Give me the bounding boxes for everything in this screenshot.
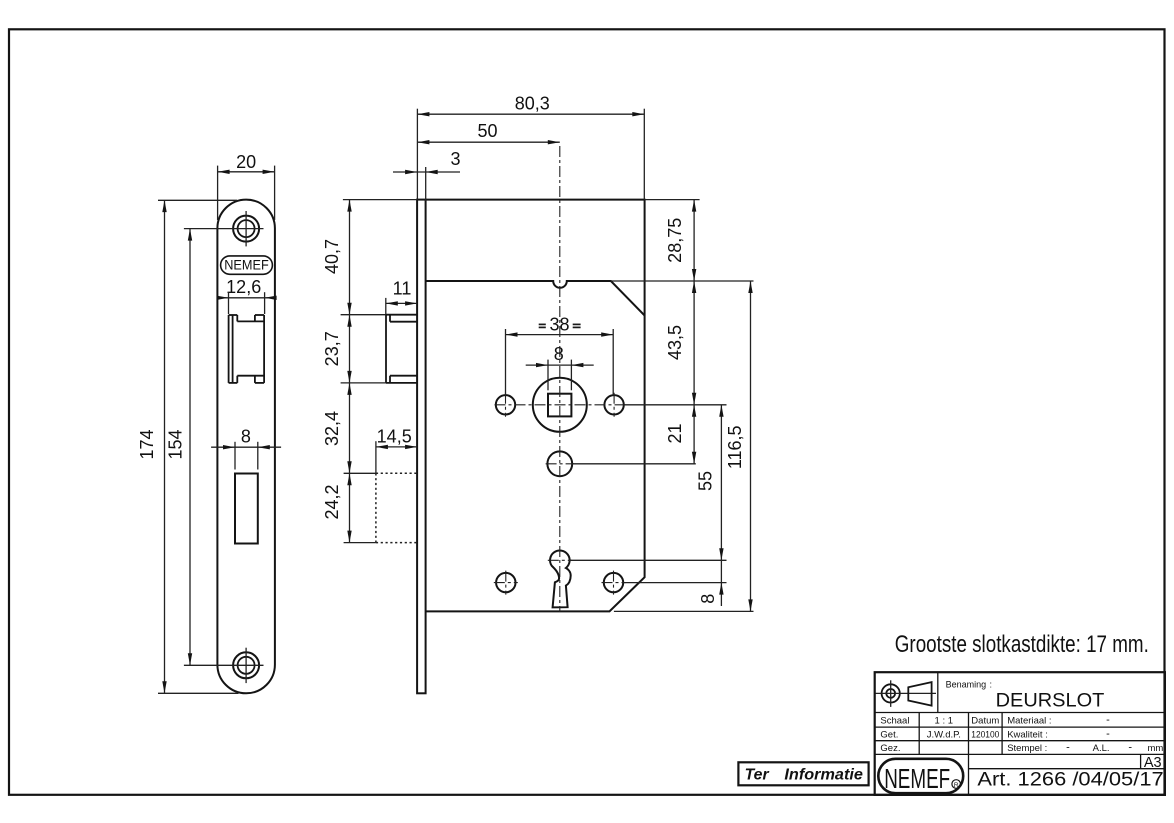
svg-text:J.W.d.P.: J.W.d.P.	[927, 730, 961, 741]
svg-text:23,7: 23,7	[322, 331, 342, 366]
svg-text:3: 3	[450, 149, 460, 169]
svg-text:80,3: 80,3	[515, 94, 550, 114]
svg-text:21: 21	[665, 423, 685, 443]
svg-text:Materiaal :: Materiaal :	[1007, 716, 1051, 727]
svg-text:-: -	[1106, 714, 1110, 726]
svg-text:R: R	[954, 782, 959, 789]
svg-text:-: -	[1106, 728, 1110, 740]
svg-text:50: 50	[477, 121, 497, 141]
svg-text:Schaal: Schaal	[880, 716, 909, 727]
svg-text:Grootste slotkastdikte: 17 mm.: Grootste slotkastdikte: 17 mm.	[895, 631, 1149, 658]
svg-text::: :	[990, 680, 993, 690]
svg-text:116,5: 116,5	[725, 425, 745, 469]
svg-text:-: -	[1066, 741, 1070, 753]
svg-text:Ter: Ter	[745, 767, 770, 784]
svg-text:Get.: Get.	[880, 730, 898, 741]
svg-text:1 : 1: 1 : 1	[935, 716, 954, 727]
svg-text:Gez.: Gez.	[880, 743, 900, 754]
svg-text:mm: mm	[1147, 743, 1163, 754]
svg-text:8: 8	[698, 594, 718, 604]
svg-text:12,6: 12,6	[226, 277, 261, 297]
svg-text:55: 55	[696, 471, 716, 491]
svg-text:40,7: 40,7	[322, 239, 342, 274]
svg-text:154: 154	[165, 429, 185, 459]
svg-text:8: 8	[554, 344, 564, 364]
svg-text:20: 20	[236, 152, 256, 172]
svg-text:Informatie: Informatie	[784, 767, 863, 784]
svg-text:Stempel :: Stempel :	[1007, 743, 1047, 754]
svg-text:Art. 1266 /04/05/17: Art. 1266 /04/05/17	[977, 770, 1163, 791]
svg-text:38: 38	[549, 315, 569, 335]
svg-text:174: 174	[137, 429, 157, 459]
svg-text:Kwaliteit :: Kwaliteit :	[1007, 730, 1048, 741]
svg-text:120100: 120100	[971, 730, 999, 741]
svg-text:8: 8	[241, 426, 251, 446]
svg-text:43,5: 43,5	[665, 325, 685, 360]
svg-text:Datum: Datum	[971, 716, 999, 727]
svg-text:11: 11	[393, 279, 412, 299]
svg-text:NEMEF: NEMEF	[224, 257, 269, 273]
svg-text:28,75: 28,75	[665, 218, 685, 263]
svg-text:14,5: 14,5	[377, 427, 412, 447]
svg-text:A.L.: A.L.	[1093, 743, 1110, 754]
svg-text:24,2: 24,2	[322, 484, 342, 519]
svg-text:DEURSLOT: DEURSLOT	[996, 691, 1105, 712]
svg-text:32,4: 32,4	[322, 411, 342, 446]
svg-text:Benaming: Benaming	[946, 680, 987, 690]
svg-text:-: -	[1128, 741, 1132, 753]
svg-text:NEMEF: NEMEF	[884, 763, 950, 794]
